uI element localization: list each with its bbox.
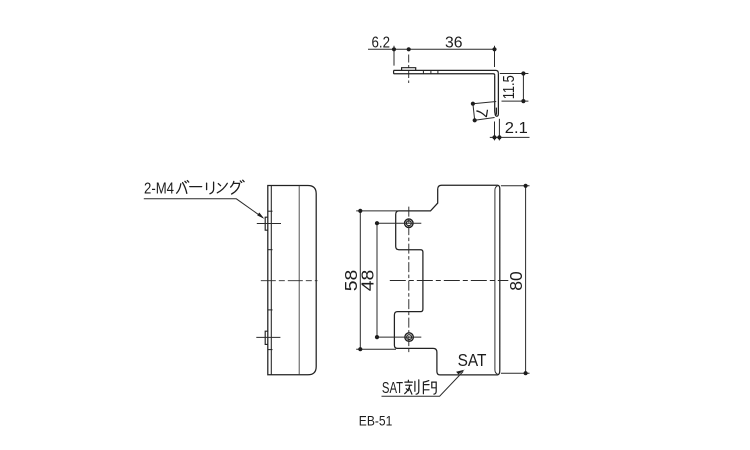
svg-text:2-M4: 2-M4 <box>144 181 174 198</box>
front view fold line <box>495 186 498 374</box>
vertical centerline through holes <box>408 207 410 354</box>
side view bend line <box>298 186 300 375</box>
front view outline <box>394 185 499 375</box>
kanji koku <box>405 380 419 394</box>
svg-text:SAT: SAT <box>458 350 487 370</box>
label leader to burring <box>144 199 263 218</box>
burring tab upper <box>265 217 268 230</box>
svg-text:80: 80 <box>506 271 526 291</box>
top view centerline (burring axis) <box>408 55 410 84</box>
side view outline <box>268 186 316 375</box>
horizontal mid centerline <box>390 280 509 282</box>
dimension 7 (slanted) <box>473 102 496 121</box>
side view edge ticks <box>268 211 273 349</box>
kanji in <box>423 381 436 395</box>
burring tab lower centerline <box>256 336 280 338</box>
edge ticks on plate <box>423 71 438 74</box>
top view plate <box>394 70 499 75</box>
dimension 80 <box>501 186 530 373</box>
dimension 48 <box>376 223 378 337</box>
burring tab upper centerline <box>257 223 281 225</box>
svg-text:6.2: 6.2 <box>372 35 391 52</box>
svg-text:2.1: 2.1 <box>505 120 528 137</box>
svg-text:36: 36 <box>445 35 463 52</box>
burring bump (top view) <box>402 68 416 71</box>
svg-text:EB-51: EB-51 <box>359 412 393 428</box>
upper hole crosshair + 48 ext <box>377 222 421 224</box>
dimension 2.1 <box>490 119 530 141</box>
dimension 58 <box>356 211 398 349</box>
side view horizontal centerline <box>261 280 318 282</box>
top view leg (folded edge) <box>495 73 499 116</box>
side view inner plate line <box>270 186 272 375</box>
lower hole crosshair + 48 ext <box>377 336 421 338</box>
lower burring hole <box>405 333 414 342</box>
upper burring hole <box>405 219 414 228</box>
svg-text:SAT: SAT <box>382 380 404 397</box>
dimension 11.5 <box>500 74 529 102</box>
svg-text:48: 48 <box>358 270 378 292</box>
burring tab lower <box>265 331 268 344</box>
dimension line 6.2/36 <box>368 46 496 67</box>
katakana ba-ringu <box>177 180 245 194</box>
svg-text:11.5: 11.5 <box>501 75 518 99</box>
label leader to SAT <box>382 371 464 396</box>
